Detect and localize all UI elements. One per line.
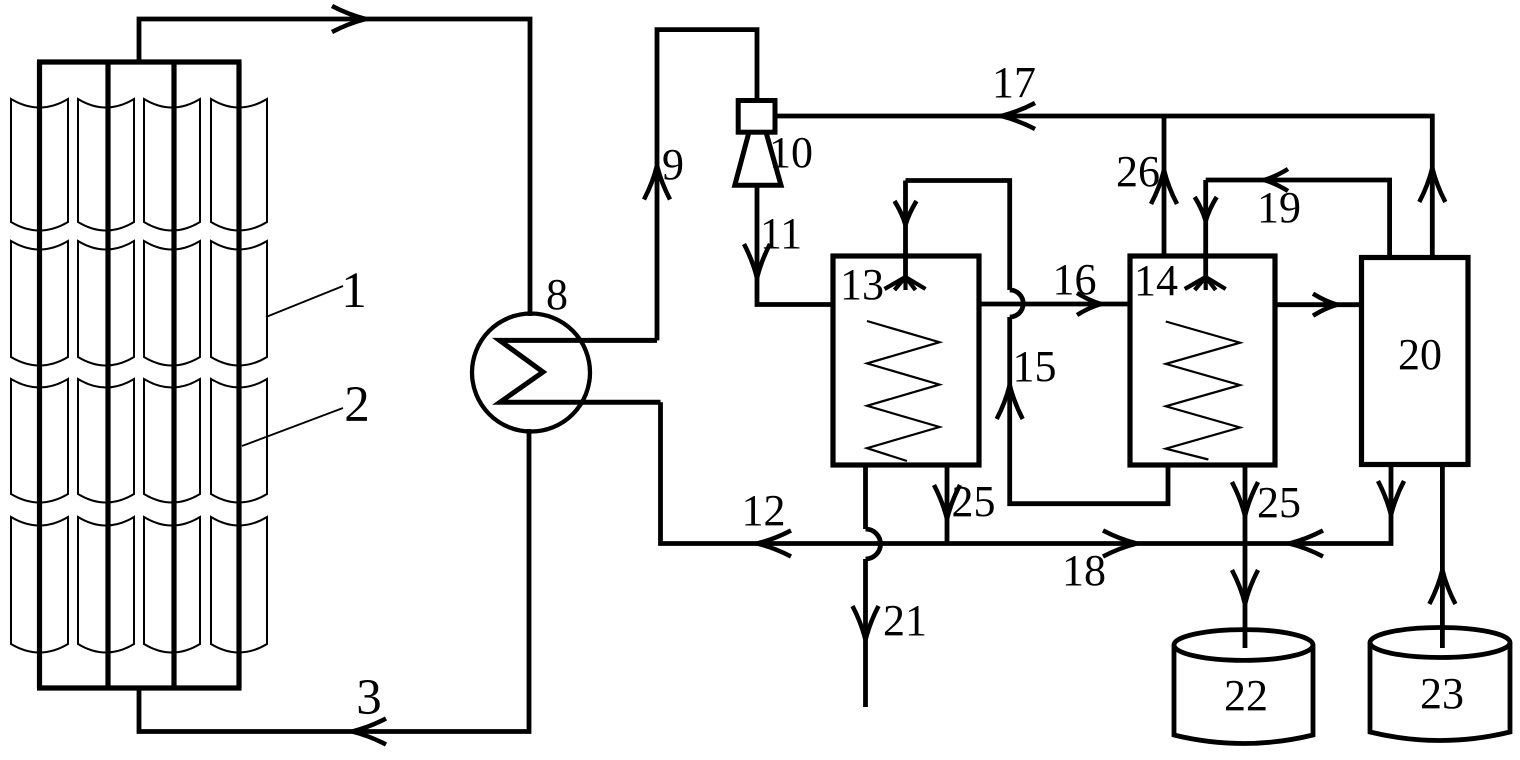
wire 15 loop vessel 14 bottom to vessel 13 spray	[1010, 317, 1168, 504]
arrow flow down on wire 25 right upper	[1232, 482, 1245, 516]
arrow flow right on top wire	[332, 6, 366, 19]
collector trough row2 col4	[211, 241, 267, 366]
wire 25 vessel 13 product drain	[945, 465, 950, 544]
collector trough row1 col1	[11, 99, 68, 231]
arrow flow down on wire 25 right lower	[1232, 570, 1245, 604]
vessel 14 spray pipe	[1203, 180, 1208, 277]
arrow flow up on wire 26	[1151, 170, 1164, 204]
vessel 13 spray nozzle	[885, 277, 906, 289]
svg-text:25: 25	[1257, 478, 1301, 527]
arrow flow left on wire 12	[757, 531, 791, 544]
arrow flow down on wire 25 left	[934, 485, 947, 519]
svg-text:14: 14	[1134, 256, 1178, 305]
arrow flow down into vessel 14 spray	[1195, 197, 1206, 221]
collector trough row3 col4	[211, 379, 267, 503]
collector riser pipe 2	[105, 62, 110, 688]
vessel 14 heating coil	[1166, 322, 1240, 460]
valve 10 square body	[738, 101, 775, 133]
vessel 14 spray nozzle	[1185, 277, 1206, 289]
arrow flow down into vessel 13 spray	[895, 201, 906, 225]
arrow flow right on wire 16	[1077, 293, 1101, 304]
collector trough row2 col2	[78, 241, 134, 366]
wire 11 valve outlet to vessel 13 inlet	[757, 185, 833, 304]
wire 17 from right column to valve 10	[775, 116, 1432, 258]
wire 26 vessel 14 top to wire 17	[1162, 116, 1167, 256]
arrow flow left on wire 19	[1264, 169, 1288, 180]
wire vessel 20 to tank 23	[1440, 465, 1445, 649]
svg-text:8: 8	[546, 270, 568, 319]
wire 9 exchanger to expansion valve	[657, 30, 757, 341]
wire 19 vessel 20 top to vessel 14 spray	[1206, 180, 1390, 258]
collector trough row3 col3	[144, 379, 200, 503]
wire vessel 14 outlet to vessel 20 inlet	[1275, 302, 1362, 307]
collector top header	[37, 59, 242, 64]
wire 21 vessel 13 drain	[863, 465, 868, 529]
collector riser pipe 1	[37, 62, 42, 688]
collector trough row1 col3	[144, 99, 200, 231]
arrow flow down on wire 21	[853, 606, 866, 640]
arrow flow right into vessel 20	[1313, 294, 1337, 305]
wire 3 exchanger bottom to collector return	[139, 429, 529, 732]
svg-text:9: 9	[662, 140, 684, 189]
vessel 13 shell	[833, 256, 979, 465]
svg-text:10: 10	[769, 128, 813, 177]
svg-text:13: 13	[840, 260, 884, 309]
svg-text:3: 3	[356, 670, 382, 726]
collector trough row3 col1	[11, 379, 68, 503]
collector trough row4 col2	[78, 517, 134, 653]
vessel 13 spray pipe	[903, 181, 908, 278]
arrow flow left on wire 3	[352, 719, 386, 732]
svg-text:25: 25	[952, 477, 996, 526]
svg-text:17: 17	[992, 58, 1036, 107]
svg-text:1: 1	[341, 263, 367, 319]
collector trough row2 col1	[11, 241, 68, 366]
arrow flow up on wire 9	[644, 166, 657, 200]
tank 23 body	[1370, 643, 1510, 741]
vessel 20 shell	[1362, 258, 1469, 465]
collector riser pipe 4	[236, 62, 241, 688]
leader line to label 1	[266, 286, 343, 317]
arrow flow left on wire 17	[1001, 103, 1035, 116]
collector riser pipe 3	[171, 62, 176, 688]
arrow flow down on vessel 20 drain	[1378, 481, 1391, 515]
arrow flow up into wire 17 from vessel 20	[1419, 168, 1432, 202]
vessel 14 shell	[1130, 256, 1275, 465]
svg-text:2: 2	[344, 377, 370, 433]
collector trough row1 col4	[211, 99, 267, 231]
wire collector outlet (hot) to exchanger top	[139, 19, 530, 316]
wire 25 vessel 14 product to tank 22	[1243, 465, 1248, 648]
leader line to label 2	[242, 408, 343, 446]
svg-text:19: 19	[1257, 183, 1301, 232]
collector trough row4 col1	[11, 517, 68, 653]
collector bottom header	[37, 685, 242, 690]
svg-text:23: 23	[1420, 669, 1464, 718]
svg-text:12: 12	[742, 486, 786, 535]
tank 22 body	[1174, 645, 1313, 744]
heat exchanger 8 sigma coil	[500, 340, 661, 402]
svg-text:18: 18	[1062, 546, 1106, 595]
svg-text:16: 16	[1053, 255, 1097, 304]
svg-text:20: 20	[1398, 330, 1442, 379]
svg-text:21: 21	[883, 596, 927, 645]
wire 12-18 bottom header	[661, 402, 1392, 543]
svg-text:26: 26	[1116, 147, 1160, 196]
svg-text:15: 15	[1013, 342, 1057, 391]
arrow flow left from vessel 20 drain	[1289, 531, 1323, 544]
arrow flow down on wire 11	[744, 244, 757, 278]
svg-text:11: 11	[760, 209, 802, 258]
collector trough row2 col3	[144, 241, 200, 366]
collector trough row3 col2	[78, 379, 134, 503]
svg-text:22: 22	[1224, 671, 1268, 720]
arrow flow up to vessel 20	[1429, 570, 1442, 604]
vessel 13 heating coil	[867, 321, 940, 461]
heat exchanger 8 circle	[472, 314, 590, 432]
collector trough row1 col2	[78, 99, 134, 231]
wire 16 vessel 13 outlet to vessel 14 inlet	[979, 302, 1130, 307]
arrow flow up on wire 15	[997, 385, 1010, 419]
collector trough row4 col3	[144, 517, 200, 653]
collector trough row4 col4	[211, 517, 267, 653]
valve 10 cone	[735, 134, 781, 185]
arrow flow right on wire 18	[1103, 531, 1137, 544]
